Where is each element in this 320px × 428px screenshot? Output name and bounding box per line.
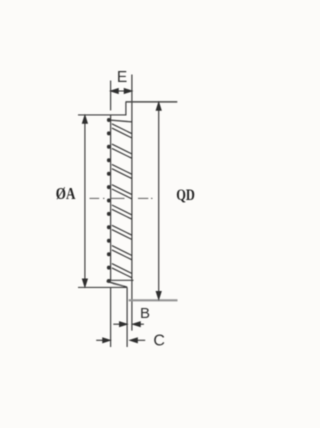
svg-text:QD: QD bbox=[176, 187, 195, 204]
louver slat 1 bbox=[112, 124, 132, 138]
louver slat 8 bbox=[112, 264, 132, 278]
louver slats bbox=[112, 124, 132, 278]
slat end bumps on front wall bbox=[107, 118, 111, 283]
rim top edge + dimension A top extension bbox=[78, 114, 126, 116]
center line bbox=[90, 197, 153, 199]
dimension E left extension line bbox=[110, 81, 112, 111]
louver slat 5 bbox=[112, 205, 132, 219]
neck wall top bbox=[125, 102, 127, 116]
dimension C right arrow bbox=[130, 338, 145, 343]
front wall bbox=[110, 115, 112, 280]
louver slat 2 bbox=[112, 144, 132, 158]
back wall (also E right / B right extension) bbox=[131, 75, 133, 331]
duct top wall bbox=[126, 101, 178, 103]
dimension QD arrow line bbox=[156, 103, 161, 300]
dimension B right arrow bbox=[133, 322, 144, 327]
louver slat 6 bbox=[112, 225, 132, 239]
svg-text:ØA: ØA bbox=[56, 184, 76, 203]
svg-text:B: B bbox=[140, 305, 150, 322]
duct bottom wall bbox=[129, 299, 178, 301]
bottom rim slat bbox=[107, 281, 128, 287]
louver slat 7 bbox=[112, 246, 132, 260]
svg-text:E: E bbox=[117, 69, 127, 86]
neck wall bottom + C right extension bbox=[126, 287, 128, 347]
C left extension (front wall continuation) bbox=[110, 287, 112, 347]
louver slat 3 bbox=[112, 164, 132, 178]
dimension A arrow line bbox=[83, 116, 88, 287]
rim bottom edge + dimension A bottom extension bbox=[78, 286, 127, 288]
svg-text:C: C bbox=[153, 333, 165, 350]
dimension E arrow line bbox=[111, 89, 132, 94]
louver channel bottom edge bbox=[111, 279, 134, 281]
louver channel top edge bbox=[109, 120, 132, 122]
dimension C left arrow bbox=[96, 338, 110, 343]
louver slat 4 bbox=[112, 185, 132, 199]
dimension B left arrow bbox=[113, 322, 127, 327]
